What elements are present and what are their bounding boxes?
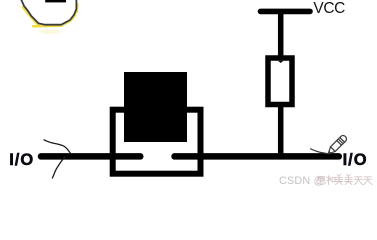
svg-text:I/O: I/O [9,151,34,169]
svg-text:I/O: I/O [343,151,368,169]
svg-text:CSDN @: CSDN @ [279,175,325,187]
svg-text:VCC: VCC [313,0,345,17]
